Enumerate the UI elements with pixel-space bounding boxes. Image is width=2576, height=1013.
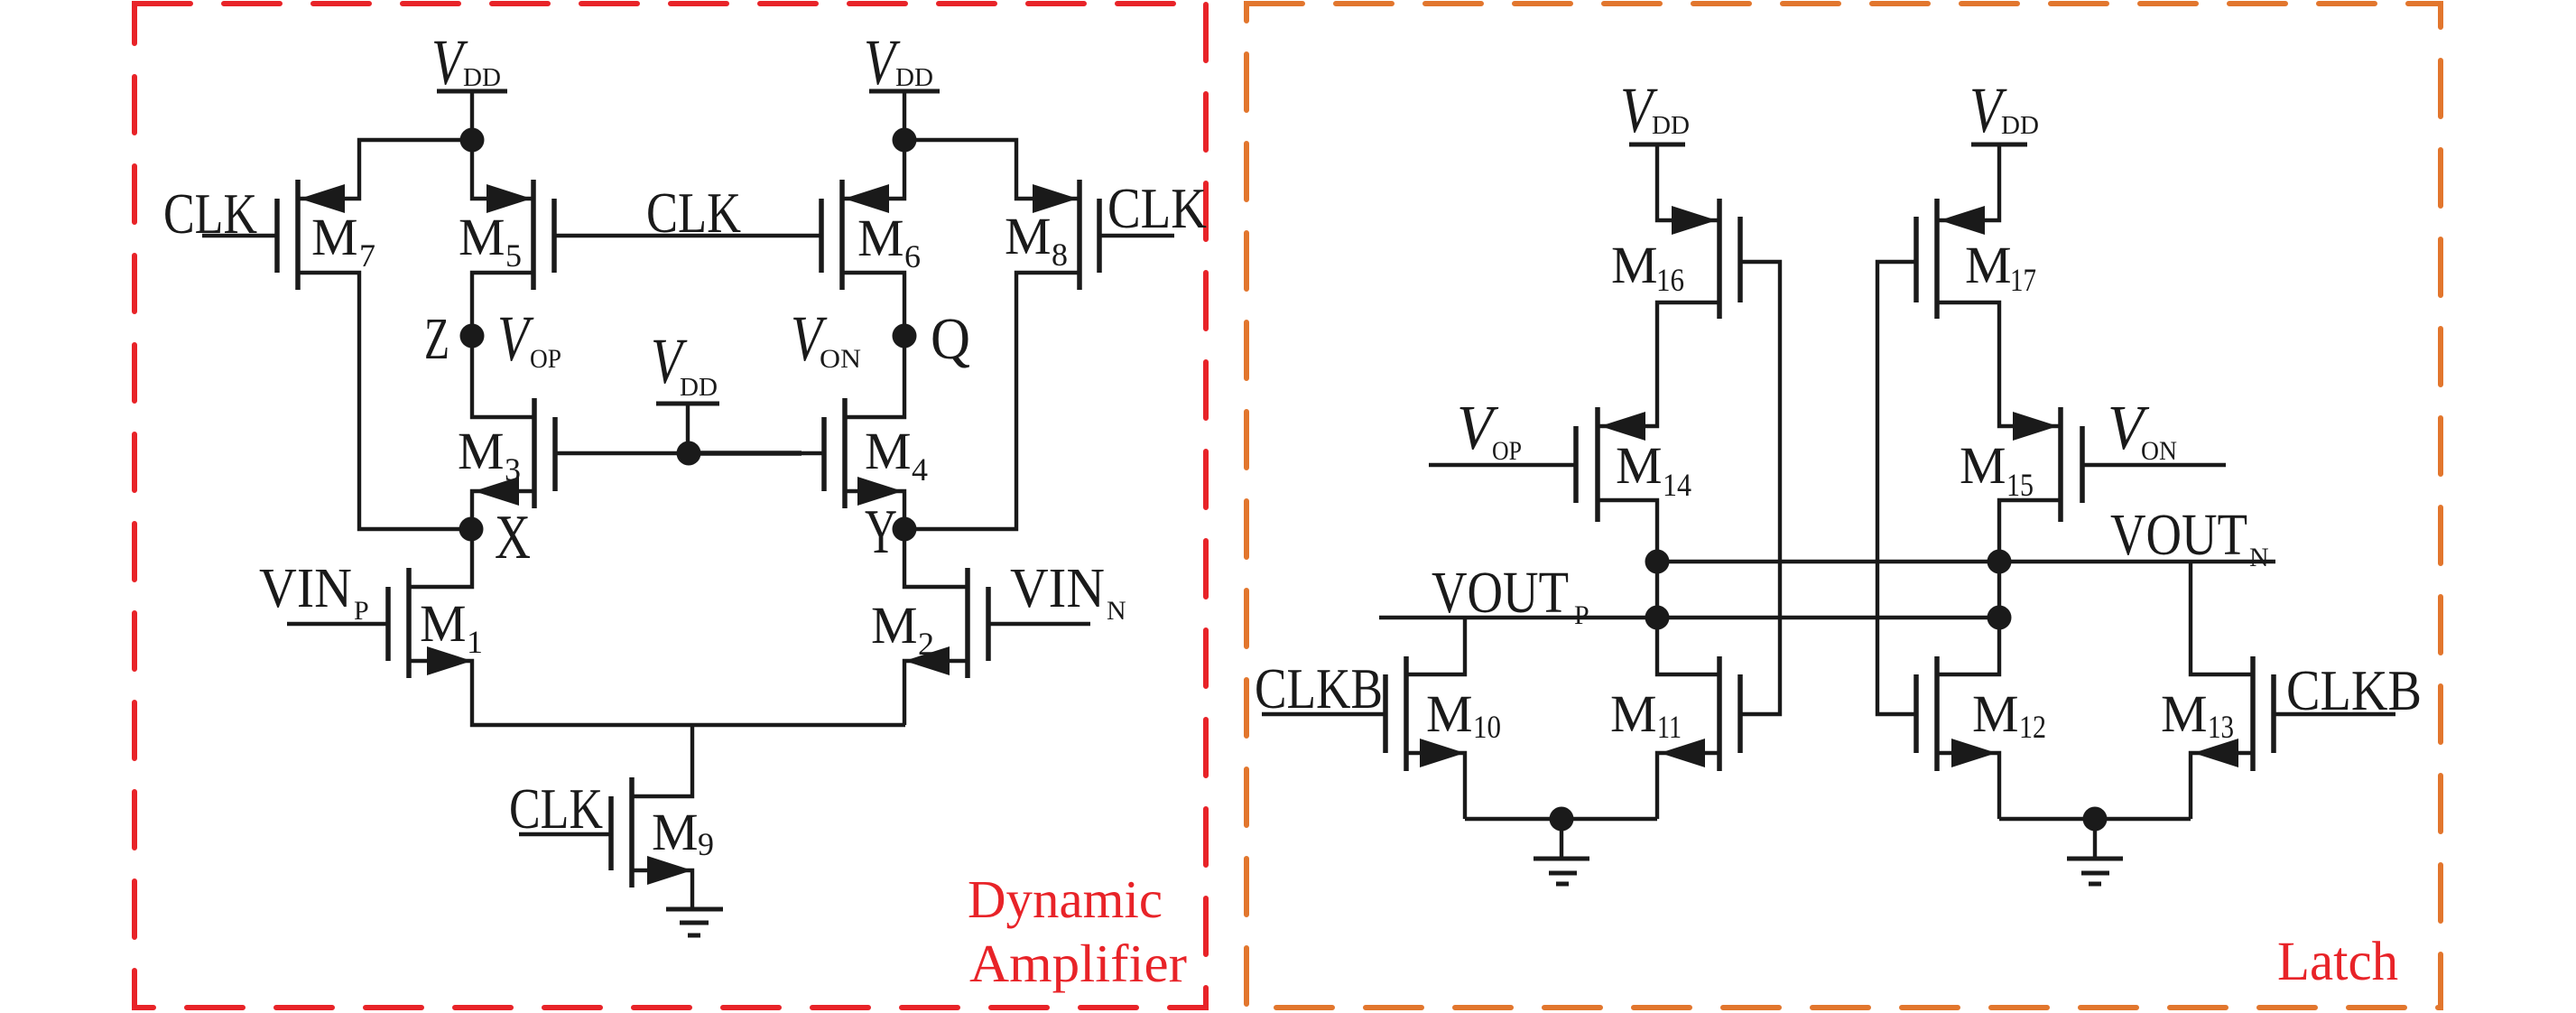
svg-text:P: P	[1574, 600, 1589, 630]
svg-text:10: 10	[1473, 709, 1501, 745]
svg-text:8: 8	[1052, 237, 1068, 273]
svg-text:M: M	[857, 209, 904, 267]
svg-text:3: 3	[505, 451, 521, 488]
svg-text:M: M	[1972, 684, 2019, 743]
svg-text:11: 11	[1657, 709, 1682, 745]
svg-text:CLKB: CLKB	[2286, 659, 2422, 722]
svg-text:Amplifier: Amplifier	[969, 934, 1187, 993]
svg-text:CLKB: CLKB	[1255, 657, 1383, 720]
svg-text:M: M	[458, 422, 505, 480]
svg-text:VOUT: VOUT	[2110, 502, 2247, 568]
svg-text:ON: ON	[820, 344, 861, 374]
svg-text:M: M	[1965, 236, 2012, 294]
svg-text:Dynamic: Dynamic	[968, 869, 1163, 929]
svg-text:17: 17	[2010, 262, 2036, 298]
svg-text:M: M	[1610, 684, 1657, 743]
svg-text:M: M	[865, 422, 912, 480]
svg-text:N: N	[2249, 543, 2269, 572]
svg-text:M: M	[459, 208, 505, 266]
svg-text:6: 6	[904, 238, 921, 274]
svg-text:N: N	[1107, 596, 1126, 626]
svg-text:CLK: CLK	[1107, 177, 1207, 240]
svg-text:VOUT: VOUT	[1432, 560, 1569, 626]
svg-text:DD: DD	[680, 374, 718, 402]
svg-text:13: 13	[2208, 709, 2234, 745]
svg-text:DD: DD	[1652, 112, 1690, 140]
svg-text:DD: DD	[895, 64, 933, 92]
svg-text:7: 7	[359, 237, 375, 274]
svg-text:Latch: Latch	[2277, 932, 2398, 992]
svg-text:M: M	[1005, 207, 1052, 265]
svg-text:OP: OP	[530, 344, 561, 374]
svg-text:M: M	[420, 594, 467, 653]
svg-text:CLK: CLK	[163, 182, 257, 246]
svg-text:Y: Y	[865, 497, 897, 567]
svg-text:16: 16	[1656, 262, 1684, 298]
svg-text:12: 12	[2019, 709, 2046, 745]
svg-text:1: 1	[467, 624, 483, 660]
svg-text:DD: DD	[463, 64, 501, 92]
svg-text:Z: Z	[424, 306, 449, 372]
svg-text:15: 15	[2006, 467, 2034, 503]
svg-text:9: 9	[698, 826, 714, 862]
svg-text:ON: ON	[2141, 436, 2177, 466]
svg-text:CLK: CLK	[646, 181, 741, 245]
svg-text:M: M	[652, 803, 699, 861]
svg-text:M: M	[871, 596, 918, 655]
svg-text:M: M	[1960, 436, 2006, 495]
svg-text:OP: OP	[1492, 436, 1522, 466]
svg-text:14: 14	[1663, 467, 1691, 503]
svg-text:M: M	[1611, 236, 1658, 294]
svg-text:P: P	[354, 596, 369, 626]
svg-text:CLK: CLK	[509, 777, 603, 841]
svg-text:M: M	[1426, 684, 1473, 743]
svg-text:M: M	[2161, 684, 2208, 743]
svg-text:5: 5	[505, 237, 522, 274]
svg-text:2: 2	[918, 626, 934, 662]
svg-text:Q: Q	[931, 306, 970, 372]
svg-text:V: V	[497, 302, 534, 375]
svg-text:DD: DD	[2001, 112, 2039, 140]
svg-text:VIN: VIN	[259, 558, 352, 619]
svg-text:M: M	[311, 208, 358, 266]
svg-text:4: 4	[912, 451, 928, 488]
svg-text:VIN: VIN	[1010, 558, 1105, 619]
svg-text:X: X	[495, 503, 531, 572]
svg-text:M: M	[1616, 436, 1663, 495]
